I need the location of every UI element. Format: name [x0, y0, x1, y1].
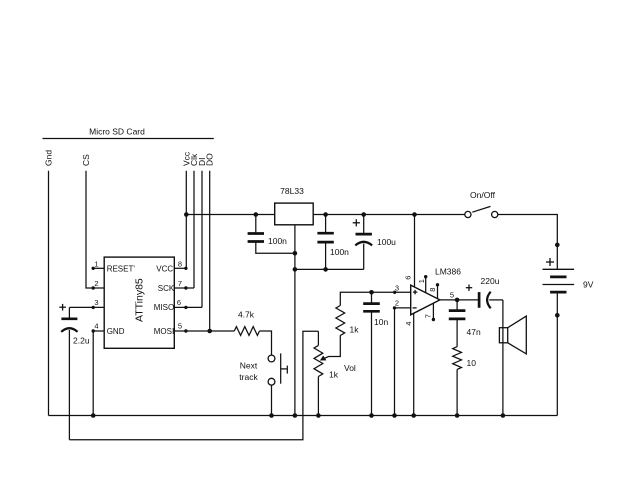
svg-text:track: track: [239, 372, 258, 382]
label: Next track: [239, 360, 258, 382]
label: 220u: [481, 276, 500, 286]
pin 1 stub U1 RESET: [92, 267, 105, 270]
pin 2 end dot U3: [393, 306, 396, 309]
svg-text:Gnd: Gnd: [44, 150, 54, 166]
junction: C5 bottom on ground rail: [369, 413, 374, 418]
svg-text:47n: 47n: [467, 327, 481, 337]
label: On/Off: [470, 190, 496, 200]
label: pin number 2: [94, 279, 98, 288]
junction: C1 top on rail: [254, 212, 259, 217]
pin 6 stub U1 MISO: [174, 306, 202, 309]
capacitor C6 47n (Zobel): [449, 300, 466, 347]
svg-text:100n: 100n: [268, 236, 287, 246]
pin 4 stub U1 GND: [92, 329, 105, 332]
wire: SD DI line to pin 6: [201, 171, 203, 308]
label: + polarity of battery: [546, 258, 554, 266]
label: 100n (C2): [330, 247, 349, 257]
svg-text:4: 4: [94, 322, 98, 331]
svg-text:5: 5: [178, 322, 182, 331]
wire: SD Vcc line down to pin 8: [185, 171, 187, 268]
junction dot on battery positive lead: [555, 243, 560, 248]
capacitor C1 100n (regulator input side): [248, 215, 295, 254]
wire: ground rail: [49, 415, 558, 417]
wire: U3 pin 4 down to ground rail: [413, 313, 415, 415]
junction: pushbutton on ground rail: [269, 413, 274, 418]
label: pin number 6: [177, 298, 181, 307]
label: 10: [467, 358, 477, 368]
wire: U3 output pin 5 to C7: [440, 299, 478, 301]
svg-text:Micro SD Card: Micro SD Card: [89, 127, 145, 137]
label: pin number 7 (rotated): [424, 314, 433, 318]
wire: 9V rail from regulator output to switch: [313, 214, 465, 216]
wire: SD CS line to pin 2: [86, 171, 93, 288]
wire: SD Clk line to pin 7: [193, 171, 195, 288]
svg-text:MOSI: MOSI: [154, 327, 174, 336]
svg-text:3: 3: [94, 298, 98, 307]
pin 7 stub U3: [432, 304, 435, 322]
svg-text:3: 3: [395, 283, 399, 292]
capacitor C4 2.2u electrolytic coupling: [61, 307, 77, 439]
svg-text:Next: Next: [240, 360, 258, 370]
svg-text:10n: 10n: [374, 317, 388, 327]
label: pin number 4 (rotated): [404, 322, 413, 326]
label: DO (rotated): [205, 153, 215, 166]
label: pin number 1 (rotated): [417, 279, 426, 283]
svg-text:100n: 100n: [330, 247, 349, 257]
wire: audio feed from C4 to volume pot (bottom route): [69, 331, 318, 440]
svg-text:Vol: Vol: [344, 363, 356, 373]
svg-text:SCK: SCK: [158, 284, 175, 293]
junction: C2 top on rail: [323, 212, 328, 217]
capacitor C7 220u electrolytic output: [479, 292, 503, 309]
label: SCK pin name: [158, 284, 175, 293]
label: + input mark: [413, 290, 417, 294]
pin 5 stub U1 MOSI / wire to R1: [174, 329, 234, 332]
svg-text:LM386: LM386: [435, 267, 461, 277]
wire: amp input node from R3 to pin 3 of U3: [340, 292, 410, 305]
label: ATTiny85 (rotated): [134, 278, 146, 322]
label: 9V: [583, 280, 594, 290]
label: + polarity of C3: [353, 219, 360, 226]
svg-text:CS: CS: [81, 154, 91, 166]
svg-text:8: 8: [178, 259, 182, 268]
svg-text:8: 8: [428, 288, 437, 292]
junction: output node pin 5: [455, 298, 460, 303]
junction: DO line on MOSI net: [207, 329, 212, 334]
IC U1 ATTiny85 body: [104, 257, 174, 348]
label: RESET' pin name: [107, 264, 136, 273]
speaker LS1: [499, 316, 526, 354]
label: Clk (rotated): [189, 153, 199, 166]
svg-text:ATTiny85: ATTiny85: [134, 278, 146, 322]
junction: pin 6 on 9V rail: [412, 212, 417, 217]
svg-text:5: 5: [450, 290, 454, 299]
junction: lower cap wire / regulator gnd: [293, 267, 298, 272]
svg-text:6: 6: [404, 276, 413, 280]
junction: C1 bottom / regulator gnd: [293, 251, 298, 256]
wire: SD DO line to MOSI net: [209, 171, 211, 331]
wire: pushbutton to ground rail: [271, 385, 273, 415]
label: 78L33: [280, 186, 304, 196]
junction: U3 pin 4 on ground rail: [411, 413, 416, 418]
label: pin number 3 (U3): [395, 283, 399, 292]
junction: C5 top on input node: [369, 290, 374, 295]
wire: 3.3V rail from Vcc line to regulator input: [186, 214, 274, 216]
switch S2 On/Off: [465, 206, 498, 217]
label: pin number 8 (rotated): [428, 288, 437, 292]
wire: switch to battery positive: [498, 215, 558, 270]
label: GND pin name: [107, 327, 125, 336]
label: MOSI pin name: [154, 327, 174, 336]
svg-text:6: 6: [177, 298, 181, 307]
svg-text:VCC: VCC: [156, 264, 173, 273]
svg-text:On/Off: On/Off: [470, 190, 496, 200]
wire: regulator ground lead down to ground rail: [294, 225, 296, 416]
wire: battery negative down to ground rail: [556, 292, 558, 415]
svg-text:DO: DO: [205, 153, 215, 166]
pushbutton S1 Next track: [268, 353, 287, 385]
svg-text:1k: 1k: [329, 370, 339, 380]
wire: U1 GND pin down to ground rail: [92, 331, 94, 416]
label: pin number 7: [178, 279, 182, 288]
label: + polarity of C4: [59, 304, 66, 311]
resistor R4 10 (Zobel): [453, 347, 462, 370]
label: pin number 2 (U3): [395, 298, 399, 307]
svg-text:4: 4: [404, 322, 413, 326]
svg-text:78L33: 78L33: [280, 186, 304, 196]
pin 8 stub U3: [436, 283, 439, 299]
label: pin number 5 (U3): [450, 290, 454, 299]
svg-text:9V: 9V: [583, 280, 594, 290]
pin 1 stub U3: [424, 275, 427, 293]
pin 2 stub U1: [92, 286, 105, 289]
resistor R1 4.7k: [234, 327, 259, 336]
wiper of R2 with arrow: [320, 335, 340, 360]
label: 2.2u: [73, 336, 90, 346]
label: Gnd (rotated): [44, 150, 54, 166]
svg-text:2.2u: 2.2u: [73, 336, 90, 346]
svg-text:2: 2: [395, 298, 399, 307]
label: 10n: [374, 317, 388, 327]
label: Vol: [344, 363, 356, 373]
pin 3 stub U1 to coupling cap: [69, 306, 104, 309]
label: pin number 8: [178, 259, 182, 268]
pin 3 end dot U3: [393, 291, 396, 294]
label: LM386: [435, 267, 461, 277]
wire: R1 to pushbutton: [260, 331, 272, 355]
label: 100u: [377, 237, 396, 247]
junction: speaker on ground rail: [501, 413, 506, 418]
svg-text:MISO: MISO: [154, 303, 174, 312]
capacitor C2 100n (regulator output side): [317, 215, 333, 270]
label: - input mark: [413, 307, 417, 309]
junction: Vcc line / 3.3V rail: [184, 212, 189, 217]
label: pin number 5: [178, 322, 182, 331]
label: MISO pin name: [154, 303, 174, 312]
svg-text:GND: GND: [107, 327, 125, 336]
junction: pot bottom on ground rail: [316, 413, 321, 418]
label: pin number 1: [94, 259, 98, 268]
wire: R4 to ground rail: [456, 369, 458, 415]
potentiometer R2 1k Vol: [314, 331, 323, 415]
label: Micro SD Card header: [89, 127, 145, 137]
label: Vcc (rotated): [181, 151, 191, 166]
pin 8 stub U1 VCC: [174, 267, 187, 270]
wire: U3 pin 2 to ground rail: [395, 308, 411, 416]
junction: C3 top on rail: [361, 212, 366, 217]
svg-text:10: 10: [467, 358, 477, 368]
svg-text:220u: 220u: [481, 276, 500, 286]
junction: U1 GND on ground rail: [91, 413, 96, 418]
label: VCC pin name: [156, 264, 173, 273]
junction: C2 bottom on lower wire: [323, 267, 328, 272]
label: pin number 6 (rotated): [404, 276, 413, 280]
label: + polarity of C7: [466, 285, 472, 291]
svg-text:7: 7: [178, 279, 182, 288]
pin 7 stub U1 SCK: [174, 286, 194, 289]
battery BT1 9V: [543, 269, 575, 292]
label: DI (rotated): [197, 158, 207, 167]
junction: U3 pin 2 wire on ground rail: [392, 413, 397, 418]
wire: SD Gnd line down to ground rail: [48, 171, 50, 416]
wire: SD card header underline: [43, 138, 214, 140]
label: 1k (R3): [350, 325, 360, 335]
label: 4.7k: [238, 310, 255, 320]
label: 100n (C1): [268, 236, 287, 246]
label: CS (rotated): [81, 154, 91, 166]
regulator U2 78L33: [275, 203, 314, 225]
resistor R3 1k series to amp input: [336, 306, 345, 336]
junction: regulator gnd on ground rail: [293, 413, 298, 418]
svg-text:7: 7: [424, 314, 433, 318]
svg-text:1: 1: [94, 259, 98, 268]
label: pin number 3: [94, 298, 98, 307]
svg-text:100u: 100u: [377, 237, 396, 247]
svg-text:1k: 1k: [350, 325, 360, 335]
label: 47n: [467, 327, 481, 337]
svg-text:RESET': RESET': [107, 264, 136, 273]
label: pin number 4: [94, 322, 98, 331]
junction: R4 on ground rail: [455, 413, 460, 418]
wire: lower capacitor ground wire: [295, 268, 364, 270]
op-amp U3 LM386 triangle: [411, 285, 440, 315]
label: 1k (pot): [329, 370, 339, 380]
svg-text:2: 2: [94, 279, 98, 288]
svg-text:4.7k: 4.7k: [238, 310, 255, 320]
junction dot on battery negative lead: [555, 313, 560, 318]
capacitor C5 10n: [363, 292, 380, 415]
capacitor C3 100u electrolytic: [355, 215, 372, 270]
wire: U3 pin 6 up to 9V rail: [414, 215, 416, 287]
wire: C7 to speaker and down to ground rail: [502, 300, 504, 416]
svg-text:1: 1: [417, 279, 426, 283]
